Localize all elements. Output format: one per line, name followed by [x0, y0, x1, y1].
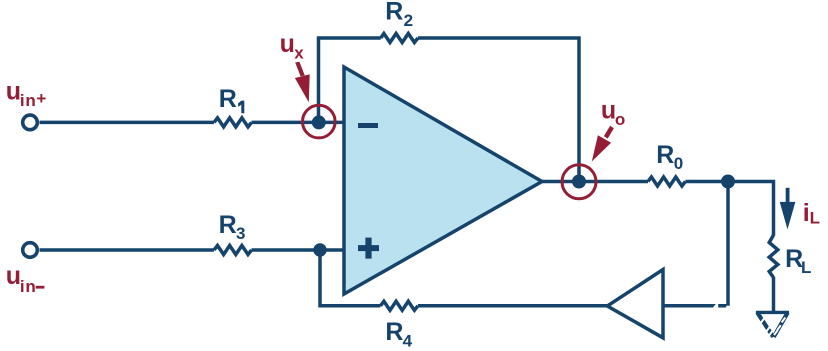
svg-text:in: in — [20, 277, 37, 296]
svg-text:0: 0 — [674, 154, 683, 173]
svg-text:2: 2 — [404, 11, 413, 30]
svg-text:o: o — [615, 110, 625, 129]
svg-text:x: x — [294, 44, 304, 63]
svg-text:L: L — [810, 208, 820, 227]
svg-text:u: u — [280, 30, 295, 58]
svg-text:u: u — [6, 78, 21, 106]
svg-text:L: L — [801, 258, 811, 277]
svg-text:u: u — [6, 262, 21, 290]
svg-text:3: 3 — [236, 224, 245, 243]
svg-text:R: R — [219, 85, 237, 113]
svg-text:in+: in+ — [20, 89, 47, 110]
svg-text:u: u — [601, 97, 616, 125]
svg-text:4: 4 — [403, 331, 413, 350]
svg-text:R: R — [385, 0, 403, 26]
svg-text:R: R — [219, 211, 237, 239]
svg-text:R: R — [656, 141, 674, 169]
svg-text:R: R — [385, 318, 403, 346]
